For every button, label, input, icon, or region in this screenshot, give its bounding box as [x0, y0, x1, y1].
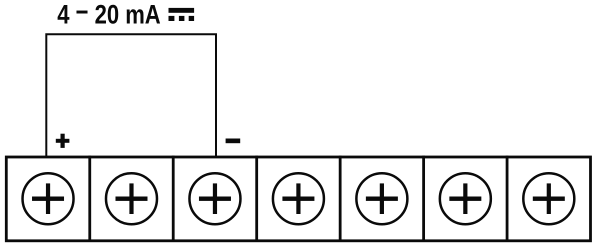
terminal screw 4 [273, 173, 324, 224]
terminal screw 6 [440, 173, 491, 224]
terminal divider 3-4 [255, 156, 258, 241]
terminal divider 2-3 [172, 156, 175, 241]
terminal screw 7 [523, 173, 574, 224]
terminal divider 6-7 [506, 156, 509, 241]
terminal divider 4-5 [339, 156, 342, 241]
wire: 4-20 mA loop (left lead, top run, right lead) [46, 34, 216, 156]
terminal screw 1 (positive, + lead) [23, 173, 74, 224]
polarity label + (positive lead) [56, 134, 70, 148]
svg-text:4 − 20 mA: 4 − 20 mA [57, 0, 161, 29]
terminal screw 3 (negative, - lead) [189, 173, 240, 224]
terminal screw 5 [356, 173, 407, 224]
terminal divider 5-6 [422, 156, 425, 241]
terminal divider 1-2 [88, 156, 91, 241]
terminal screw 2 [106, 173, 157, 224]
terminal block outline [6, 157, 590, 241]
polarity label - (negative lead) [226, 139, 241, 144]
DC (direct current) symbol [169, 8, 195, 21]
